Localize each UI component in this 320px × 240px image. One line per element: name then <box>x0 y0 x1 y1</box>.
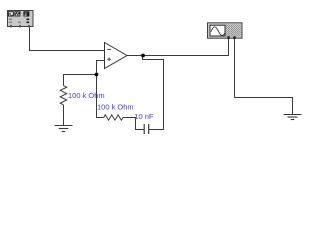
function generator XFG1 <box>8 11 34 28</box>
oscilloscope XSC1 <box>208 23 243 39</box>
ground right <box>284 115 302 120</box>
wire horizontal resistor right to capacitor left plate <box>123 118 144 130</box>
wire node to vertical resistor top <box>64 75 97 86</box>
wire vertical resistor bottom to ground <box>63 105 65 126</box>
wire feedback from output node down to capacitor right plate <box>143 56 164 130</box>
wire oscilloscope terminal B down to right ground <box>235 39 293 115</box>
junction node at non-inverting branch <box>95 73 99 77</box>
op-amp U1 <box>105 43 128 69</box>
capacitor C1 10 nF <box>144 124 149 134</box>
svg-text:100 k Ohm: 100 k Ohm <box>97 103 134 112</box>
wire op-amp output to oscilloscope terminal A <box>127 39 229 56</box>
svg-text:100 k Ohm: 100 k Ohm <box>68 91 105 100</box>
wire from function generator to op-amp inverting input <box>30 27 105 51</box>
junction node at op-amp output <box>141 54 145 58</box>
ground left <box>55 126 73 132</box>
wire op-amp non-inverting input down to horizontal resistor <box>97 61 105 118</box>
svg-text:10 nF: 10 nF <box>134 112 154 121</box>
resistor R2 100 k Ohm (horizontal) <box>104 115 123 120</box>
resistor R1 100 k Ohm (vertical) <box>60 86 66 105</box>
